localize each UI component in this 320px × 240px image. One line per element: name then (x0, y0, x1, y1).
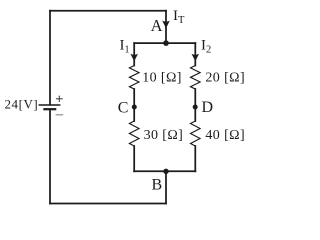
wire branch top horizontal A to branches (134, 42, 195, 44)
wire left branch middle segment (10ohm to C) (133, 89, 135, 121)
resistor R1 10 ohm zigzag (129, 66, 139, 89)
battery plus sign (56, 96, 63, 102)
current arrow IT (down arrowhead on wire into A) (162, 21, 170, 29)
svg-text:10 [Ω]: 10 [Ω] (142, 71, 182, 86)
svg-text:I2: I2 (201, 37, 211, 55)
current arrow I1 (down arrowhead on left branch) (130, 54, 138, 61)
svg-text:40 [Ω]: 40 [Ω] (205, 128, 245, 143)
node A junction dot (163, 40, 169, 46)
wire left vertical lower (battery - to bottom) (49, 110, 51, 204)
battery minus sign (56, 114, 64, 116)
node C junction dot (132, 105, 137, 110)
resistor R4 40 ohm zigzag (191, 121, 201, 146)
wire right branch lower segment (40ohm to bottom) (194, 146, 196, 171)
wire left vertical upper (battery + to top) (49, 11, 51, 105)
svg-text:A: A (151, 16, 163, 35)
svg-text:IT: IT (173, 8, 185, 26)
wire top horizontal (50, 10, 166, 12)
node B junction dot (163, 169, 168, 174)
wire right vertical from bottom up to node B (165, 171, 167, 203)
battery V1 negative plate (short thick) (44, 108, 55, 110)
wire bottom horizontal (50, 203, 166, 205)
svg-text:20 [Ω]: 20 [Ω] (205, 71, 245, 86)
wire right branch upper segment (194, 43, 196, 65)
svg-text:B: B (152, 177, 163, 194)
wire bottom connecting horizontal C-branch to D-branch through B (134, 170, 195, 172)
current arrow I2 (down arrowhead on right branch) (192, 54, 200, 61)
wire right branch middle segment (20ohm to D) (194, 89, 196, 121)
resistor R3 30 ohm zigzag (129, 121, 139, 146)
wire left branch lower segment (30ohm to bottom) (133, 146, 135, 171)
wire right vertical from top down to node A (165, 11, 167, 43)
resistor R2 20 ohm zigzag (191, 66, 201, 89)
svg-text:24[V]: 24[V] (5, 97, 39, 112)
svg-text:C: C (118, 100, 129, 117)
svg-text:D: D (202, 99, 214, 116)
battery V1 positive plate (long) (39, 104, 59, 106)
svg-text:30 [Ω]: 30 [Ω] (144, 128, 184, 143)
node D junction dot (193, 105, 198, 110)
svg-text:I1: I1 (120, 37, 130, 55)
wire left branch upper segment (133, 43, 135, 65)
